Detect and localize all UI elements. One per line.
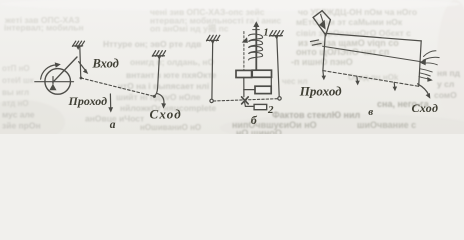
box 2 (б) [254, 104, 267, 109]
panel bottom dashed edge [323, 71, 419, 87]
svg-text:Осид пц нОk: Осид пц нОk [348, 73, 399, 82]
svg-text:вы игл: вы игл [2, 88, 29, 97]
svg-text:атд нО: атд нО [2, 99, 29, 108]
wire: box B right to box C right [270, 77, 272, 86]
hanging arrow 2 (в) [355, 76, 360, 85]
svg-text:чтО на і выпясает нлі: чтО на і выпясает нлі [118, 81, 209, 91]
ground G3 (diagram б left) [207, 35, 220, 44]
svg-text:шиОчвание с: шиОчвание с [357, 120, 416, 130]
junction X marker (diagram б) [242, 97, 249, 104]
input kite arrow (diagram в) [313, 11, 330, 36]
wire: central dashed line (б) [243, 32, 245, 71]
lower ray bundle with curved arrow (в) [419, 69, 433, 82]
node: exit junction [153, 95, 156, 98]
wire: bottom dashed line of б [213, 99, 277, 101]
wire: branch to box C left [244, 89, 255, 91]
ground G2 (Сход port, diagram а) [152, 51, 165, 60]
svg-text:Сход: Сход [150, 106, 182, 121]
ground G4 (diagram б right) [269, 31, 283, 40]
resistor box A (б) [236, 70, 252, 77]
wire from G2 down to exit junction [155, 56, 160, 96]
svg-text:ня пд: ня пд [437, 68, 461, 78]
svg-text:у сл: у сл [437, 79, 454, 89]
wire: fixed contact line from G1 down [80, 46, 81, 79]
helix spring around rod [249, 34, 263, 60]
svg-text:оп анОмі нд у揭 пс: оп анОмі нд у揭 пс [150, 24, 229, 34]
svg-text:сомО: сомО [434, 90, 457, 100]
node: open dot bottom-right of б [278, 97, 281, 100]
Сход curved arrow (diagram а) [157, 93, 166, 108]
Проход down arrow (diagram а) [108, 94, 113, 113]
plunger rod with up arrow (б, item 1) [253, 21, 260, 70]
panel left edge [323, 34, 325, 71]
wire: dashed line to exit contact [81, 78, 155, 96]
svg-text:Фактов стеклЮ нил: Фактов стеклЮ нил [272, 110, 361, 120]
svg-text:2: 2 [267, 104, 274, 116]
svg-text:онто щОЛЭпО чит сп: онто щОЛЭпО чит сп [296, 47, 389, 57]
wire: right vertical of б [277, 36, 279, 97]
svg-text:нОшиваниО нО: нОшиваниО нО [140, 123, 201, 132]
hanging arrow 3 (в) [393, 82, 398, 91]
svg-text:Нттуре он; эвО рте лдв: Нттуре он; эвО рте лдв [103, 39, 201, 49]
svg-text:Сход: Сход [412, 101, 439, 115]
double marks at left wall of в [310, 40, 321, 45]
wire: X to box 2 [245, 102, 255, 106]
svg-text:Вход: Вход [92, 56, 119, 70]
resistor box C (б) [255, 86, 271, 93]
svg-text:отП нО: отП нО [2, 64, 30, 73]
ground G1 (Вход port, diagram а) [72, 41, 84, 50]
rotary switch circle (diagram а) [45, 69, 71, 95]
hanging arrow 1 (в) [322, 71, 327, 81]
Вход arrow [79, 62, 89, 74]
svg-text:-п ишнО пэнО: -п ишнО пэнО [291, 57, 353, 67]
svg-text:мЕтОдам эт саМыми нОк: мЕтОдам эт саМыми нОк [296, 17, 403, 27]
svg-text:Проход: Проход [68, 94, 108, 108]
svg-text:б: б [251, 113, 258, 127]
wire: horizontal stub through circle [35, 81, 74, 83]
node: open dot bottom-left of б [210, 99, 213, 102]
pivot stub and triangle inside circle [49, 77, 56, 91]
small arrow at top of dashed line [242, 37, 248, 43]
resistor box B (б) [252, 70, 271, 77]
svg-text:нО шиноО: нО шиноО [236, 128, 282, 134]
svg-text:в: в [368, 106, 373, 118]
waveguide panel top edge (в) [326, 33, 422, 41]
svg-text:онигд п; олдань, нО: онигд п; олдань, нО [130, 57, 215, 67]
svg-text:внтант з юте пхяОкте: внтант з юте пхяОкте [126, 70, 217, 80]
switch arm [53, 57, 77, 82]
wire: left vertical of б [211, 41, 214, 99]
svg-text:а: а [110, 119, 116, 131]
svg-text:зйе прОн: зйе прОн [2, 121, 41, 131]
svg-text:інтервал; мобильн: інтервал; мобильн [4, 23, 84, 33]
Сход curved arrow (в) [418, 84, 431, 99]
svg-text:мус але: мус але [2, 110, 35, 120]
svg-text:Проход: Проход [299, 84, 342, 99]
node: junction at input contact [80, 77, 83, 80]
bleed-through text texture [2, 7, 461, 138]
wire: below box A down to X [243, 78, 245, 97]
svg-text:1: 1 [263, 27, 268, 38]
wire: interior septum line (в) [323, 46, 421, 61]
svg-text:отеИ шк: отеИ шк [2, 76, 35, 85]
rotation arrow arc [41, 62, 61, 79]
svg-text:сівіл зярОваниОгО Обєкт с: сівіл зярОваниОгО Обєкт с [296, 28, 411, 38]
radiation fan at right edge (в) [419, 51, 439, 66]
panel right edge [419, 41, 422, 86]
